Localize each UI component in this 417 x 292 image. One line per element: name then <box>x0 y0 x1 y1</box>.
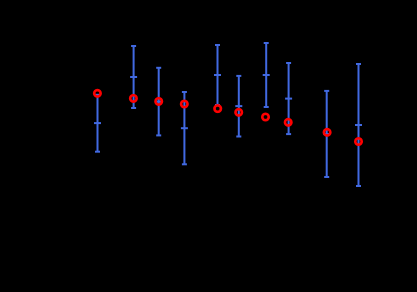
data point 9 <box>324 129 330 135</box>
error bar 2 <box>130 46 137 108</box>
error bar 3 <box>155 68 162 136</box>
error bar 1 <box>94 95 101 152</box>
data point 1 <box>94 90 100 96</box>
error bar 10 <box>355 64 362 186</box>
data point 3 <box>156 98 162 104</box>
error bar 4 <box>181 92 188 164</box>
error bar 9 <box>323 91 330 177</box>
data point 10 <box>355 138 361 144</box>
data point 5 <box>215 105 221 111</box>
data point 4 <box>181 101 187 107</box>
error bar 6 <box>235 76 242 137</box>
data point 8 <box>285 119 291 125</box>
error bar 7 <box>263 43 270 107</box>
error bar 8 <box>285 63 292 134</box>
data point 7 <box>262 114 268 120</box>
error bar 5 <box>214 45 221 105</box>
data point 2 <box>130 95 136 101</box>
data point 6 <box>236 109 242 115</box>
